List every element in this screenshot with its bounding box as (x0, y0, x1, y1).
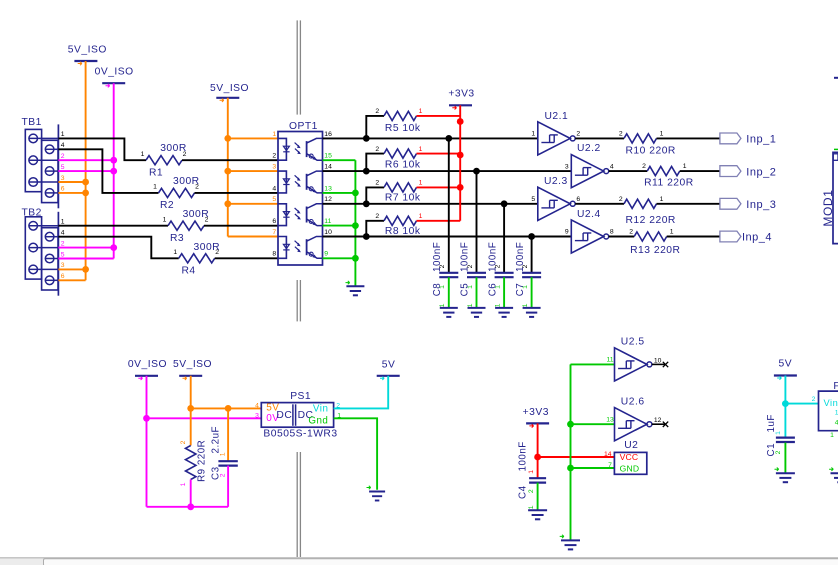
svg-text:OPT1: OPT1 (289, 121, 318, 132)
svg-text:2: 2 (467, 264, 474, 268)
svg-text:2: 2 (576, 131, 580, 138)
svg-text:U2.2: U2.2 (577, 143, 601, 154)
svg-text:2: 2 (195, 184, 199, 191)
svg-text:1: 1 (163, 216, 167, 223)
svg-text:R8 10k: R8 10k (385, 226, 421, 237)
svg-text:12: 12 (654, 417, 662, 424)
svg-text:2: 2 (375, 180, 379, 187)
svg-text:1: 1 (467, 285, 474, 289)
svg-text:GND: GND (620, 463, 640, 473)
svg-text:U2.5: U2.5 (621, 337, 645, 348)
svg-text:PS1: PS1 (290, 391, 311, 402)
svg-text:11: 11 (324, 218, 331, 225)
svg-text:B0505S-1WR3: B0505S-1WR3 (263, 429, 337, 440)
svg-text:4: 4 (272, 185, 276, 192)
svg-text:0V_ISO: 0V_ISO (95, 67, 134, 78)
svg-text:1uF: 1uF (766, 414, 777, 432)
svg-text:Vin: Vin (313, 404, 328, 415)
svg-text:+3V3: +3V3 (448, 89, 474, 100)
svg-text:1: 1 (272, 131, 276, 138)
svg-text:2: 2 (439, 264, 446, 268)
svg-text:1: 1 (467, 303, 474, 307)
svg-text:3: 3 (61, 175, 65, 182)
svg-text:2: 2 (812, 396, 816, 403)
svg-text:R3: R3 (170, 233, 184, 244)
svg-text:2: 2 (220, 473, 227, 477)
svg-text:6: 6 (576, 196, 580, 203)
svg-text:1: 1 (775, 431, 782, 435)
svg-text:2: 2 (528, 489, 535, 493)
svg-text:U2.1: U2.1 (545, 111, 569, 122)
svg-text:2: 2 (215, 249, 219, 256)
svg-text:R10 220R: R10 220R (626, 145, 676, 156)
svg-text:R1: R1 (149, 167, 163, 178)
svg-text:1: 1 (220, 452, 227, 456)
svg-text:R7 10k: R7 10k (385, 193, 421, 204)
svg-text:12: 12 (324, 196, 332, 203)
svg-text:VCC: VCC (620, 452, 639, 462)
svg-text:5: 5 (61, 251, 65, 258)
svg-text:8: 8 (610, 229, 614, 236)
svg-text:1: 1 (495, 303, 502, 307)
svg-text:R4: R4 (182, 265, 196, 276)
svg-text:1: 1 (439, 303, 446, 307)
svg-text:4: 4 (610, 163, 614, 170)
svg-text:1: 1 (141, 151, 145, 158)
svg-text:R11 220R: R11 220R (644, 177, 694, 188)
svg-text:5: 5 (61, 164, 65, 171)
svg-text:1: 1 (522, 285, 529, 289)
svg-text:14: 14 (324, 164, 332, 171)
svg-text:2: 2 (375, 146, 379, 153)
svg-text:5V_ISO: 5V_ISO (210, 83, 249, 94)
svg-text:1: 1 (439, 285, 446, 289)
svg-text:5V: 5V (778, 358, 792, 369)
svg-text:R2: R2 (160, 200, 174, 211)
svg-text:2: 2 (495, 264, 502, 268)
svg-text:5: 5 (272, 196, 276, 203)
svg-text:2: 2 (180, 440, 187, 444)
svg-text:4: 4 (61, 142, 65, 149)
svg-text:F: F (833, 381, 838, 392)
svg-text:R12 220R: R12 220R (626, 215, 676, 226)
svg-text:10: 10 (654, 357, 662, 364)
svg-text:Inp_4: Inp_4 (742, 232, 772, 244)
svg-text:2: 2 (522, 264, 529, 268)
svg-text:1: 1 (528, 470, 535, 474)
svg-text:1: 1 (528, 505, 535, 509)
svg-text:DC: DC (276, 410, 292, 421)
svg-text:2: 2 (205, 216, 209, 223)
svg-text:3: 3 (272, 164, 276, 171)
svg-text:Inp_3: Inp_3 (746, 199, 776, 211)
svg-text:Gnd: Gnd (308, 415, 328, 426)
svg-text:100nF: 100nF (518, 441, 529, 471)
svg-text:4: 4 (61, 230, 65, 237)
svg-text:+3V3: +3V3 (523, 407, 549, 418)
svg-text:9: 9 (565, 229, 569, 236)
svg-text:2: 2 (183, 151, 187, 158)
svg-text:2: 2 (61, 153, 65, 160)
svg-text:7: 7 (608, 462, 612, 469)
svg-text:2: 2 (375, 213, 379, 220)
svg-text:1: 1 (670, 229, 674, 236)
svg-text:1: 1 (419, 213, 423, 220)
svg-text:7: 7 (272, 229, 276, 236)
svg-text:4: 4 (255, 402, 259, 409)
svg-text:15: 15 (324, 153, 332, 160)
svg-text:2: 2 (775, 450, 782, 454)
svg-text:5V: 5V (382, 360, 396, 371)
svg-text:2: 2 (619, 196, 623, 203)
svg-text:6: 6 (61, 186, 65, 193)
svg-text:6: 6 (272, 218, 276, 225)
svg-text:9: 9 (324, 251, 328, 258)
svg-text:1: 1 (419, 108, 423, 115)
svg-text:1: 1 (61, 219, 65, 226)
svg-text:14: 14 (604, 451, 612, 458)
svg-text:1: 1 (830, 432, 834, 439)
svg-text:R6 10k: R6 10k (385, 159, 421, 170)
svg-text:13: 13 (606, 416, 614, 423)
svg-text:R9 220R: R9 220R (197, 440, 208, 482)
svg-text:1: 1 (61, 131, 65, 138)
svg-text:U2: U2 (624, 440, 638, 451)
svg-text:Inp_2: Inp_2 (746, 166, 776, 178)
svg-text:R13 220R: R13 220R (630, 245, 680, 256)
svg-text:1: 1 (660, 130, 664, 137)
svg-text:TB1: TB1 (22, 117, 42, 128)
svg-text:10: 10 (324, 229, 332, 236)
svg-text:1: 1 (153, 184, 157, 191)
svg-text:Inp_1: Inp_1 (746, 134, 776, 146)
svg-text:R5 10k: R5 10k (385, 123, 421, 134)
svg-text:3: 3 (255, 412, 259, 419)
svg-text:6: 6 (61, 273, 65, 280)
svg-text:1: 1 (495, 285, 502, 289)
svg-text:1: 1 (683, 163, 687, 170)
svg-text:2: 2 (629, 229, 633, 236)
svg-text:2: 2 (375, 108, 379, 115)
svg-text:Vin: Vin (824, 398, 838, 408)
svg-text:13: 13 (324, 185, 332, 192)
svg-text:1: 1 (522, 303, 529, 307)
svg-text:1: 1 (180, 482, 187, 486)
svg-text:5V_ISO: 5V_ISO (173, 359, 212, 370)
svg-text:16: 16 (324, 131, 332, 138)
svg-text:2: 2 (642, 163, 646, 170)
svg-text:5: 5 (531, 196, 535, 203)
svg-text:1: 1 (419, 180, 423, 187)
svg-text:3: 3 (565, 163, 569, 170)
svg-text:2: 2 (619, 130, 623, 137)
svg-text:11: 11 (606, 357, 613, 364)
svg-text:MOD1: MOD1 (821, 190, 835, 227)
svg-text:1: 1 (660, 196, 664, 203)
svg-text:C4: C4 (518, 485, 529, 499)
svg-text:3: 3 (61, 262, 65, 269)
svg-text:2.2uF: 2.2uF (211, 426, 222, 454)
svg-text:8: 8 (272, 251, 276, 258)
svg-text:0V_ISO: 0V_ISO (128, 359, 167, 370)
svg-text:1: 1 (531, 131, 535, 138)
svg-text:2: 2 (61, 240, 65, 247)
svg-text:U2.4: U2.4 (577, 209, 601, 220)
svg-text:1: 1 (419, 146, 423, 153)
svg-text:1: 1 (173, 249, 177, 256)
svg-text:U2.6: U2.6 (621, 397, 645, 408)
svg-text:U2.3: U2.3 (544, 176, 568, 187)
svg-text:2: 2 (272, 153, 276, 160)
svg-text:5V_ISO: 5V_ISO (68, 45, 107, 56)
